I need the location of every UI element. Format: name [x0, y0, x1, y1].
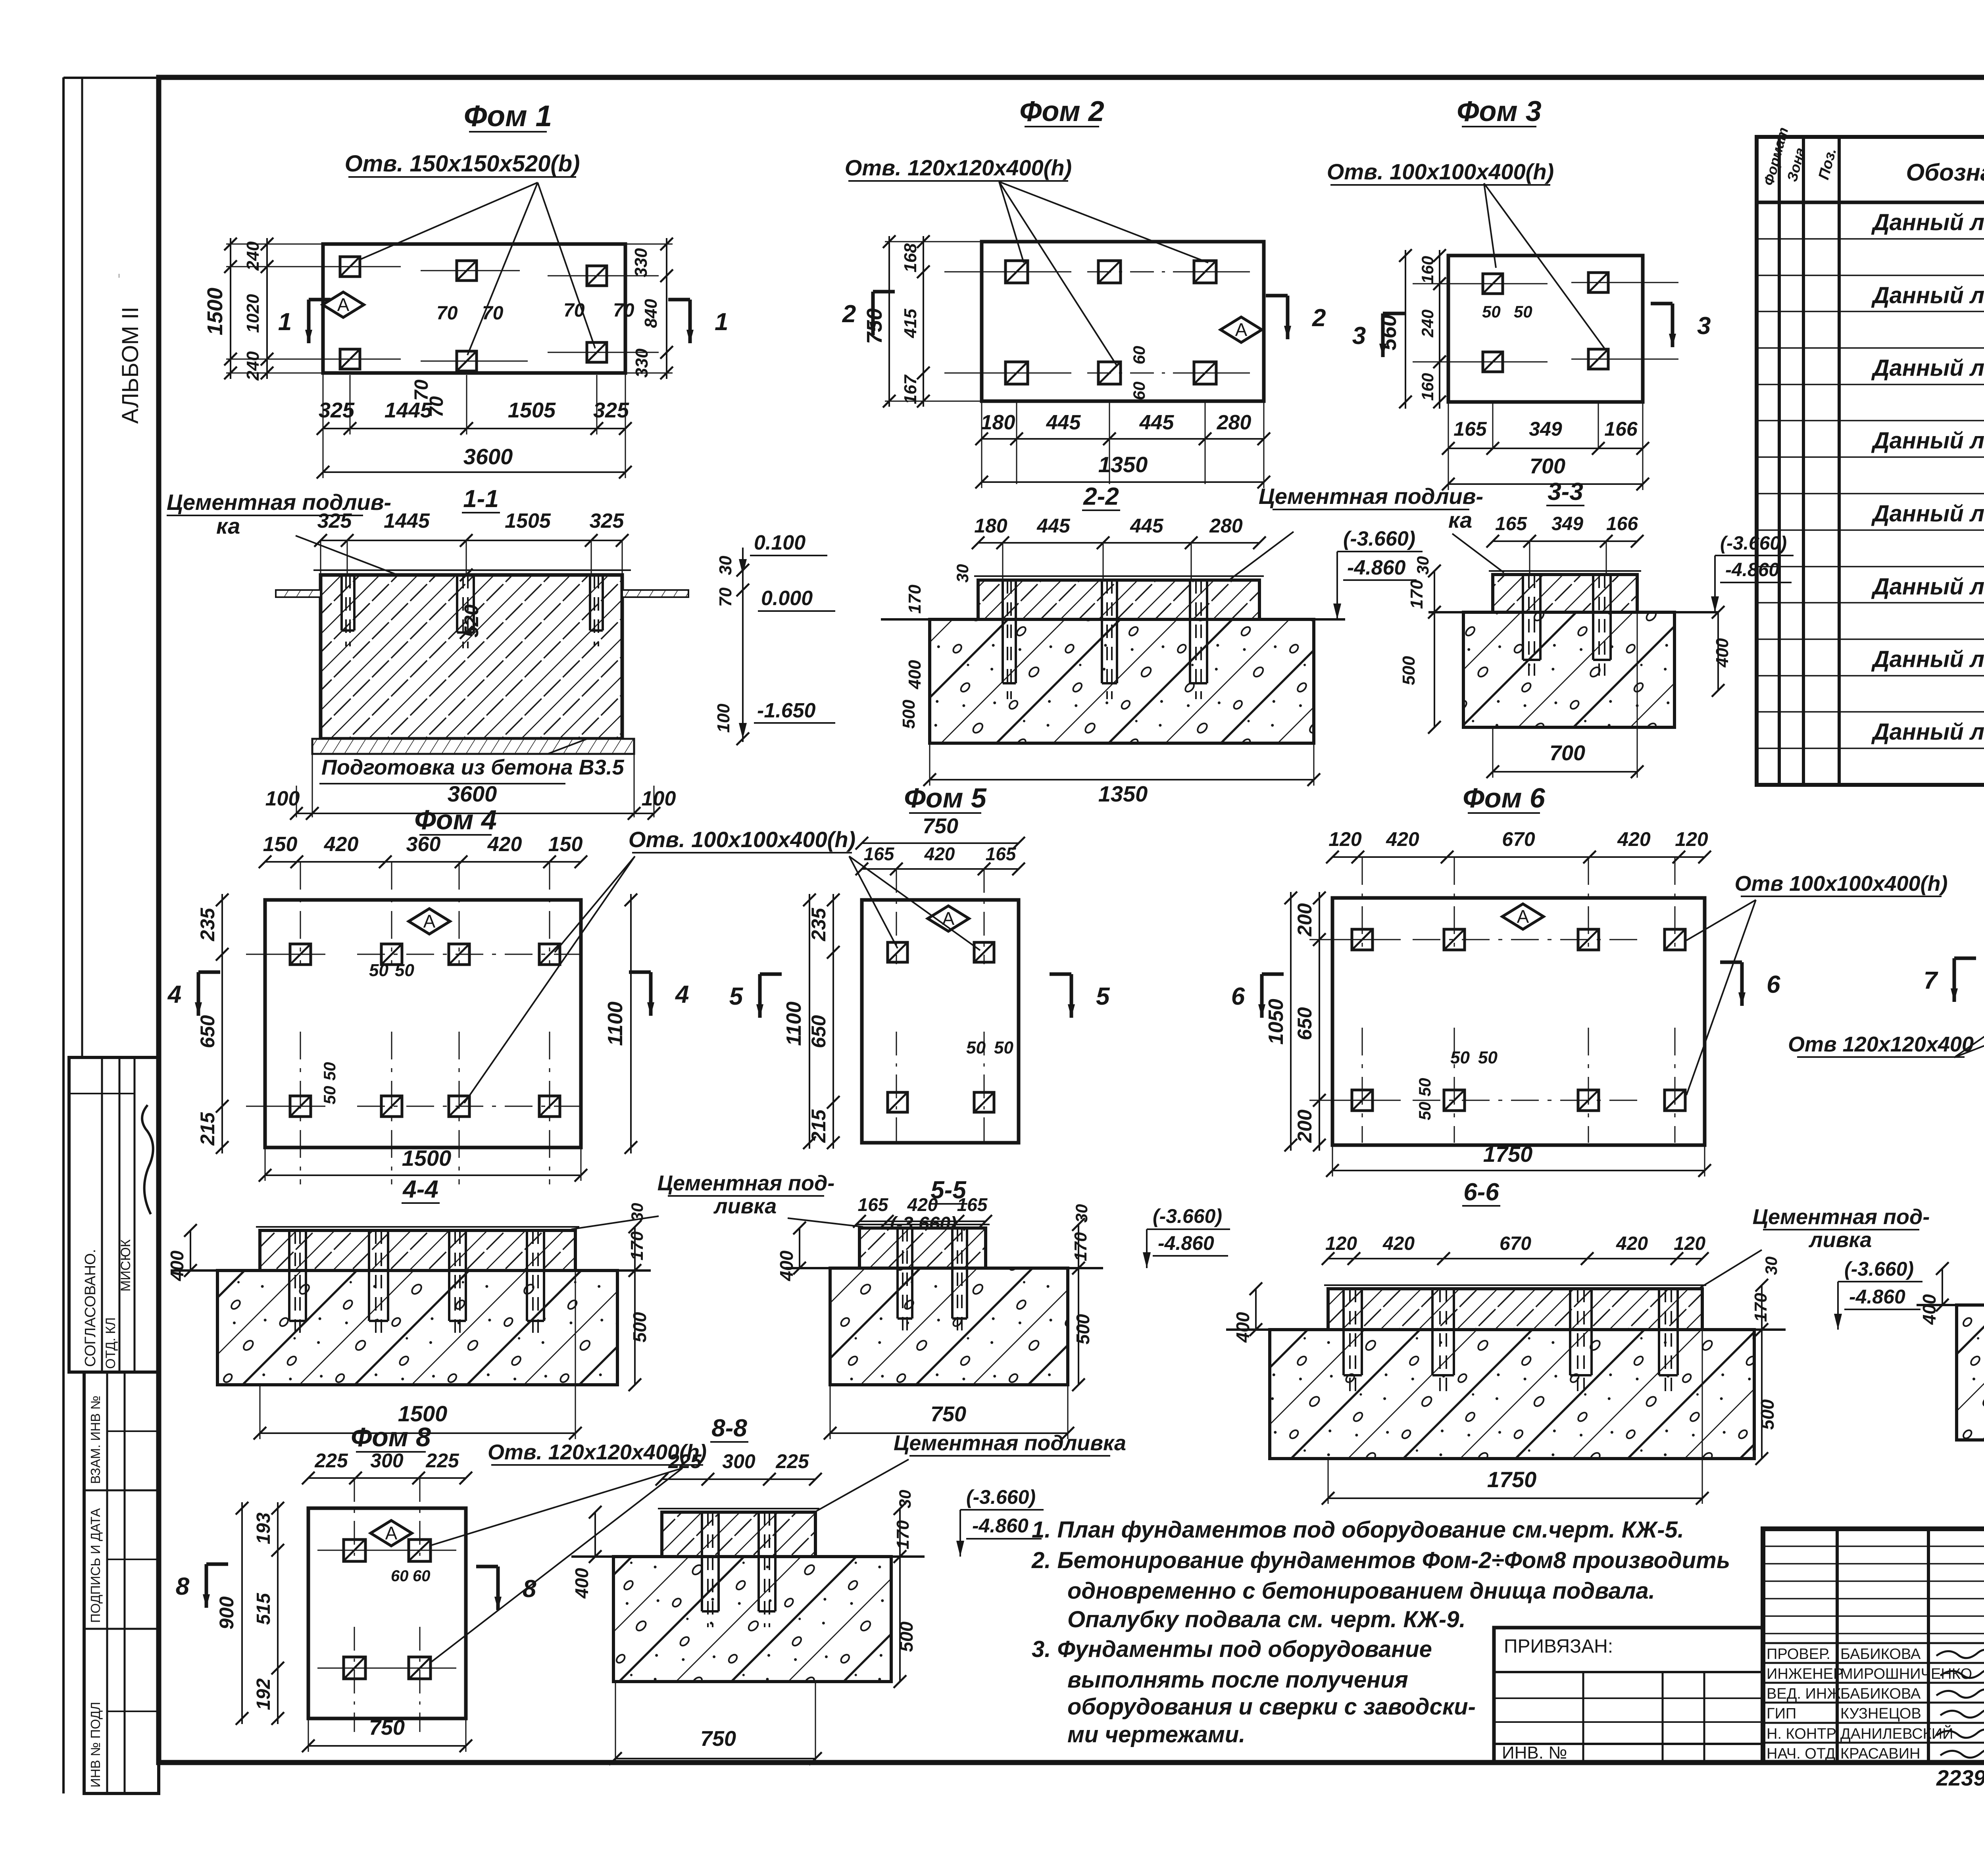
- svg-text:3-3: 3-3: [1548, 478, 1583, 506]
- svg-text:700: 700: [1550, 741, 1585, 765]
- svg-text:70: 70: [563, 300, 585, 321]
- svg-text:(-3.660): (-3.660): [1153, 1205, 1222, 1227]
- svg-text:200: 200: [1294, 903, 1316, 937]
- svg-text:Данный лист: Данный лист: [1871, 428, 1984, 454]
- svg-text:(-3.660): (-3.660): [1343, 527, 1415, 550]
- svg-text:ПОДПИСЬ И ДАТА: ПОДПИСЬ И ДАТА: [88, 1508, 103, 1623]
- svg-text:Цементная под-: Цементная под-: [657, 1171, 835, 1195]
- svg-text:70: 70: [613, 300, 634, 321]
- svg-text:70: 70: [482, 303, 504, 324]
- svg-text:750: 750: [700, 1727, 736, 1751]
- svg-text:160: 160: [1418, 373, 1437, 401]
- svg-text:(-3.660): (-3.660): [1720, 533, 1787, 554]
- svg-text:170: 170: [893, 1520, 913, 1549]
- svg-text:Данный лист: Данный лист: [1871, 574, 1984, 600]
- svg-text:6-6: 6-6: [1463, 1178, 1499, 1206]
- svg-text:360: 360: [406, 833, 441, 856]
- svg-text:166: 166: [1604, 418, 1638, 440]
- svg-text:167: 167: [901, 374, 920, 404]
- svg-text:170: 170: [1071, 1232, 1090, 1261]
- svg-text:165: 165: [858, 1194, 889, 1215]
- svg-text:420: 420: [487, 833, 522, 856]
- svg-text:445: 445: [1139, 411, 1175, 434]
- svg-text:420: 420: [1386, 828, 1419, 850]
- svg-text:60: 60: [413, 1567, 431, 1585]
- svg-text:100: 100: [265, 787, 300, 810]
- svg-text:120: 120: [1674, 1233, 1705, 1254]
- svg-text:235: 235: [196, 907, 219, 942]
- svg-text:Отв. 100х100х400(h): Отв. 100х100х400(h): [629, 827, 856, 852]
- svg-text:Фом 6: Фом 6: [1463, 782, 1546, 813]
- svg-text:30: 30: [1762, 1257, 1780, 1275]
- svg-text:165: 165: [1453, 418, 1487, 440]
- svg-text:Отв. 120х120х400(h): Отв. 120х120х400(h): [845, 155, 1072, 180]
- svg-text:Цементная подливка: Цементная подливка: [894, 1431, 1126, 1455]
- svg-text:60: 60: [391, 1567, 409, 1585]
- svg-text:ДАНИЛЕВСКИЙ: ДАНИЛЕВСКИЙ: [1840, 1724, 1953, 1742]
- svg-text:235: 235: [807, 907, 830, 942]
- svg-text:170: 170: [1407, 580, 1426, 609]
- svg-text:ИНВ № ПОДЛ: ИНВ № ПОДЛ: [88, 1702, 103, 1788]
- svg-text:БАБИКОВА: БАБИКОВА: [1840, 1646, 1921, 1663]
- svg-text:60: 60: [1130, 346, 1148, 365]
- svg-text:400: 400: [1713, 638, 1732, 668]
- svg-text:ка: ка: [216, 513, 240, 538]
- svg-text:2-2: 2-2: [1083, 483, 1119, 510]
- svg-text:1. План фундаментов под оборуд: 1. План фундаментов под оборудование см.…: [1032, 1517, 1684, 1543]
- svg-text:165: 165: [1495, 513, 1527, 534]
- svg-text:325: 325: [319, 398, 355, 422]
- svg-text:(-3.660): (-3.660): [1844, 1258, 1914, 1280]
- svg-text:50: 50: [1482, 302, 1501, 321]
- svg-text:0.100: 0.100: [754, 531, 806, 554]
- svg-text:2: 2: [842, 300, 856, 328]
- svg-text:Обозначение: Обозначение: [1906, 159, 1984, 186]
- svg-text:-4.860: -4.860: [1158, 1232, 1214, 1254]
- svg-text:ка: ка: [1448, 507, 1472, 532]
- svg-text:520: 520: [460, 604, 483, 638]
- svg-text:Фом 4: Фом 4: [414, 804, 497, 835]
- svg-text:240: 240: [1418, 309, 1437, 338]
- svg-text:280: 280: [1217, 411, 1252, 434]
- svg-text:А: А: [942, 908, 955, 929]
- svg-text:100: 100: [642, 787, 676, 810]
- svg-text:6: 6: [1231, 983, 1245, 1010]
- svg-text:ми чертежами.: ми чертежами.: [1067, 1722, 1245, 1747]
- svg-text:50: 50: [1415, 1102, 1434, 1121]
- svg-text:445: 445: [1046, 411, 1081, 434]
- svg-text:ИНЖЕНЕР: ИНЖЕНЕР: [1767, 1666, 1843, 1682]
- svg-text:400: 400: [571, 1568, 592, 1599]
- svg-text:БАБИКОВА: БАБИКОВА: [1840, 1686, 1921, 1702]
- svg-text:165: 165: [957, 1194, 988, 1215]
- svg-text:Данный лист: Данный лист: [1871, 646, 1984, 672]
- svg-text:349: 349: [1551, 513, 1583, 534]
- svg-text:70: 70: [716, 587, 735, 607]
- svg-text:165: 165: [986, 844, 1017, 864]
- svg-text:1445: 1445: [384, 398, 433, 422]
- svg-text:1505: 1505: [508, 398, 556, 422]
- svg-text:1350: 1350: [1098, 781, 1148, 806]
- svg-text:700: 700: [1530, 454, 1565, 478]
- svg-text:300: 300: [370, 1449, 404, 1472]
- svg-text:2. Бетонирование фундаментов Ф: 2. Бетонирование фундаментов Фом-2÷Фом8 …: [1031, 1547, 1730, 1573]
- svg-text:1750: 1750: [1483, 1142, 1533, 1167]
- svg-text:50: 50: [395, 961, 414, 980]
- svg-text:50: 50: [1478, 1048, 1498, 1067]
- svg-text:Опалубку подвала см. черт. КЖ-: Опалубку подвала см. черт. КЖ-9.: [1067, 1607, 1466, 1632]
- svg-text:420: 420: [907, 1194, 938, 1215]
- svg-text:30: 30: [1072, 1204, 1091, 1223]
- svg-text:120: 120: [1675, 828, 1708, 850]
- svg-text:ИНВ. №: ИНВ. №: [1502, 1743, 1567, 1763]
- svg-text:А: А: [1235, 319, 1248, 340]
- svg-text:Цементная под-: Цементная под-: [1753, 1205, 1930, 1229]
- svg-text:5: 5: [729, 983, 744, 1010]
- svg-text:840: 840: [641, 299, 661, 328]
- svg-text:750: 750: [369, 1716, 405, 1740]
- svg-text:215: 215: [807, 1109, 830, 1143]
- svg-text:60: 60: [1130, 382, 1148, 400]
- svg-text:180: 180: [974, 515, 1007, 537]
- svg-text:160: 160: [1418, 256, 1437, 284]
- svg-text:Н. КОНТР: Н. КОНТР: [1767, 1726, 1836, 1742]
- svg-text:3. Фундаменты под оборудование: 3. Фундаменты под оборудование: [1032, 1636, 1432, 1662]
- svg-text:400: 400: [776, 1250, 797, 1281]
- svg-text:420: 420: [1617, 828, 1651, 850]
- svg-text:420: 420: [1382, 1233, 1415, 1254]
- svg-text:225: 225: [668, 1450, 702, 1472]
- svg-text:325: 325: [593, 398, 629, 422]
- svg-text:ливка: ливка: [1808, 1228, 1872, 1252]
- svg-text:420: 420: [924, 844, 955, 864]
- svg-text:500: 500: [1073, 1314, 1093, 1344]
- svg-text:750: 750: [930, 1402, 966, 1426]
- svg-text:1505: 1505: [505, 509, 551, 532]
- svg-text:400: 400: [905, 660, 925, 690]
- svg-text:500: 500: [896, 1621, 917, 1652]
- svg-text:420: 420: [324, 833, 359, 856]
- svg-text:А: А: [337, 294, 350, 315]
- svg-text:Фом 3: Фом 3: [1457, 96, 1542, 127]
- svg-text:ПРИВЯЗАН:: ПРИВЯЗАН:: [1504, 1636, 1613, 1657]
- svg-text:420: 420: [1616, 1233, 1648, 1254]
- svg-text:50: 50: [1514, 302, 1532, 321]
- svg-text:3600: 3600: [448, 781, 497, 806]
- svg-text:(-3.660): (-3.660): [966, 1486, 1036, 1508]
- svg-text:Данный лист: Данный лист: [1871, 210, 1984, 235]
- svg-text:1020: 1020: [243, 294, 263, 333]
- svg-text:515: 515: [253, 1593, 274, 1625]
- svg-text:170: 170: [905, 584, 925, 614]
- svg-text:150: 150: [263, 833, 298, 856]
- svg-text:Фом 2: Фом 2: [1019, 96, 1104, 127]
- svg-text:ОТД. КЛ: ОТД. КЛ: [103, 1317, 118, 1369]
- svg-text:500: 500: [629, 1312, 650, 1342]
- svg-text:2: 2: [1312, 304, 1326, 332]
- svg-text:70: 70: [436, 303, 458, 324]
- svg-text:100: 100: [714, 703, 733, 733]
- svg-text:1100: 1100: [782, 1001, 806, 1046]
- svg-text:6: 6: [1767, 971, 1780, 998]
- svg-text:650: 650: [807, 1015, 830, 1048]
- svg-text:1100: 1100: [604, 1001, 627, 1046]
- svg-text:170: 170: [627, 1231, 647, 1261]
- svg-text:50: 50: [1415, 1078, 1434, 1097]
- svg-text:280: 280: [1209, 515, 1243, 537]
- svg-text:ВЕД. ИНЖ: ВЕД. ИНЖ: [1767, 1686, 1841, 1702]
- svg-text:0.000: 0.000: [761, 587, 813, 610]
- svg-text:500: 500: [1757, 1399, 1778, 1430]
- svg-text:3: 3: [1352, 322, 1366, 350]
- svg-text:А: А: [1517, 906, 1529, 927]
- svg-text:Фом 5: Фом 5: [904, 782, 987, 813]
- svg-text:500: 500: [1399, 656, 1419, 685]
- svg-text:325: 325: [590, 509, 625, 532]
- svg-text:325: 325: [317, 509, 352, 532]
- svg-text:349: 349: [1529, 418, 1562, 440]
- svg-text:415: 415: [901, 309, 920, 338]
- svg-text:670: 670: [1500, 1233, 1531, 1254]
- svg-text:Данный лист: Данный лист: [1871, 501, 1984, 527]
- svg-text:КУЗНЕЦОВ: КУЗНЕЦОВ: [1840, 1705, 1921, 1722]
- svg-text:Отв. 150х150х520(b): Отв. 150х150х520(b): [345, 151, 580, 177]
- svg-text:ВЗАМ. ИНВ №: ВЗАМ. ИНВ №: [88, 1395, 103, 1484]
- svg-text:Данный лист: Данный лист: [1871, 355, 1984, 381]
- svg-text:4: 4: [167, 981, 181, 1008]
- svg-text:330: 330: [631, 248, 651, 277]
- svg-text:22397-02: 22397-02: [1936, 1765, 1984, 1790]
- svg-text:Данный лист: Данный лист: [1871, 283, 1984, 308]
- svg-text:НАЧ. ОТД: НАЧ. ОТД: [1767, 1745, 1836, 1762]
- svg-text:8-8: 8-8: [711, 1415, 747, 1442]
- svg-text:50: 50: [320, 1086, 339, 1105]
- svg-text:4: 4: [675, 981, 689, 1008]
- svg-text:650: 650: [196, 1015, 219, 1048]
- svg-text:Цементная подлив-: Цементная подлив-: [167, 490, 391, 515]
- svg-text:МИСЮК: МИСЮК: [118, 1239, 133, 1292]
- svg-text:215: 215: [196, 1112, 219, 1146]
- svg-text:МИРОШНИЧЕНКО: МИРОШНИЧЕНКО: [1840, 1666, 1972, 1682]
- svg-text:одновременно с бетонированием: одновременно с бетонированием днища подв…: [1067, 1578, 1655, 1604]
- svg-text:50: 50: [994, 1038, 1013, 1057]
- svg-text:1500: 1500: [402, 1146, 452, 1171]
- svg-text:А: А: [385, 1523, 398, 1543]
- svg-text:165: 165: [864, 844, 895, 864]
- svg-text:30: 30: [1413, 556, 1432, 575]
- svg-text:1: 1: [715, 308, 728, 336]
- svg-text:ливка: ливка: [713, 1194, 777, 1218]
- svg-text:ПРОВЕР.: ПРОВЕР.: [1767, 1646, 1830, 1663]
- svg-text:1-1: 1-1: [463, 485, 499, 513]
- svg-text:193: 193: [253, 1513, 274, 1544]
- svg-text:50: 50: [320, 1062, 339, 1081]
- svg-text:СОГЛАСОВАНО.: СОГЛАСОВАНО.: [82, 1249, 99, 1367]
- svg-text:168: 168: [901, 243, 920, 273]
- svg-text:7: 7: [1924, 967, 1938, 994]
- svg-text:1050: 1050: [1265, 999, 1288, 1045]
- svg-text:8: 8: [176, 1573, 190, 1600]
- svg-text:30: 30: [716, 555, 735, 575]
- svg-text:240: 240: [243, 351, 263, 381]
- svg-text:Цементная подлив-: Цементная подлив-: [1259, 484, 1483, 509]
- svg-text:225: 225: [314, 1449, 348, 1472]
- svg-text:Отв. 100х100х400(h): Отв. 100х100х400(h): [1327, 159, 1554, 184]
- svg-text:Отв 120х120х400: Отв 120х120х400: [1788, 1032, 1974, 1056]
- svg-text:Фом 8: Фом 8: [351, 1422, 431, 1452]
- svg-text:5: 5: [1096, 983, 1110, 1010]
- svg-text:170: 170: [1751, 1293, 1771, 1322]
- svg-text:500: 500: [899, 700, 919, 729]
- svg-text:300: 300: [722, 1450, 756, 1472]
- svg-text:-1.650: -1.650: [757, 699, 816, 722]
- svg-text:КРАСАВИН: КРАСАВИН: [1840, 1745, 1921, 1762]
- svg-text:120: 120: [1325, 1233, 1357, 1254]
- svg-text:-4.860: -4.860: [1849, 1286, 1905, 1308]
- svg-text:1: 1: [278, 308, 292, 336]
- svg-text:Данный лист: Данный лист: [1871, 719, 1984, 745]
- svg-text:50: 50: [966, 1038, 986, 1057]
- svg-text:АЛЬБОМ II: АЛЬБОМ II: [117, 307, 143, 424]
- svg-text:50: 50: [369, 961, 388, 980]
- svg-text:30: 30: [896, 1490, 914, 1509]
- svg-text:670: 670: [1502, 828, 1535, 850]
- svg-text:-4.860: -4.860: [972, 1515, 1029, 1537]
- svg-text:166: 166: [1606, 513, 1638, 534]
- svg-text:А: А: [423, 911, 436, 932]
- svg-text:750: 750: [923, 814, 958, 838]
- svg-text:225: 225: [775, 1450, 809, 1472]
- svg-text:Подготовка из бетона В3.5: Подготовка из бетона В3.5: [321, 755, 625, 779]
- svg-text:1750: 1750: [1487, 1467, 1537, 1492]
- svg-text:120: 120: [1328, 828, 1362, 850]
- svg-text:1350: 1350: [1098, 452, 1148, 477]
- svg-text:150: 150: [548, 833, 583, 856]
- svg-text:1500: 1500: [203, 288, 227, 335]
- svg-text:1445: 1445: [384, 509, 430, 532]
- svg-text:180: 180: [981, 411, 1015, 434]
- svg-text:900: 900: [215, 1596, 238, 1630]
- svg-text:4-4: 4-4: [402, 1176, 438, 1203]
- svg-text:445: 445: [1130, 515, 1164, 537]
- svg-text:225: 225: [425, 1449, 459, 1472]
- svg-text:3600: 3600: [463, 444, 513, 469]
- svg-text:650: 650: [1294, 1007, 1316, 1040]
- svg-text:-4.860: -4.860: [1725, 559, 1779, 580]
- svg-text:400: 400: [1232, 1312, 1253, 1343]
- svg-text:оборудования и сверки с заводс: оборудования и сверки с заводски-: [1067, 1694, 1476, 1720]
- svg-text:выполнять после получения: выполнять после получения: [1067, 1667, 1408, 1693]
- svg-text:50: 50: [1450, 1048, 1470, 1067]
- svg-text:-4.860: -4.860: [1347, 556, 1406, 579]
- svg-text:192: 192: [253, 1678, 274, 1710]
- svg-text:30: 30: [953, 564, 972, 583]
- svg-text:445: 445: [1036, 515, 1071, 537]
- svg-text:Отв 100х100х400(h): Отв 100х100х400(h): [1735, 872, 1948, 896]
- svg-text:ГИП: ГИП: [1767, 1705, 1796, 1722]
- svg-text:200: 200: [1294, 1109, 1316, 1143]
- svg-text:3: 3: [1697, 312, 1711, 340]
- svg-text:Фом 1: Фом 1: [464, 99, 552, 133]
